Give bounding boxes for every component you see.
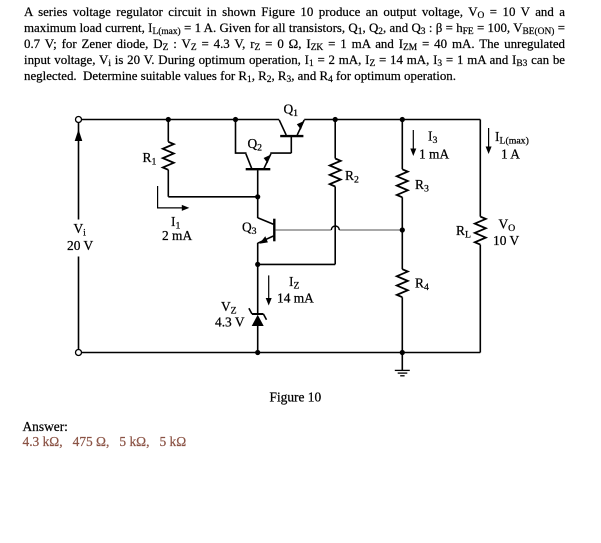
label Vz [221, 299, 237, 317]
input terminal top (open circle) [76, 117, 82, 123]
wire Q3 collector up to node A [257, 197, 259, 218]
junction dot R1 top [166, 117, 171, 122]
wire Q3 base line to node C (with hop over R2 branch) [275, 226, 402, 230]
svg-text:R4: R4 [415, 276, 429, 294]
label I3 [428, 129, 437, 147]
junction dot Q2 collector on rail [233, 117, 238, 122]
wire R2 bottom to node B [258, 263, 336, 265]
arrow I1 (corner, right) [158, 186, 190, 211]
svg-text:IL(max): IL(max) [495, 129, 529, 147]
svg-text:Figure 10: Figure 10 [270, 389, 322, 404]
label IL(max) [495, 129, 529, 147]
input terminal bottom (open circle) [76, 350, 82, 356]
label Q3 [242, 219, 257, 237]
label 1 mA [419, 147, 449, 162]
svg-text:Q2: Q2 [248, 136, 263, 154]
label Q2 [248, 136, 263, 154]
wire Q3 emitter down to node B [257, 243, 259, 265]
wire top rail right section [304, 119, 480, 121]
svg-text:I3: I3 [428, 129, 437, 147]
junction dot ground node on bottom rail [400, 350, 405, 355]
label 10 V [493, 233, 519, 248]
resistor R4 [397, 230, 408, 353]
label R3 [415, 177, 429, 195]
arrow IL(max) (down) [486, 128, 492, 154]
label 1 A [501, 147, 520, 162]
node A (R1/Q2 base/Q3 collector junction dot) [255, 194, 260, 199]
svg-text:Vi: Vi [74, 221, 87, 239]
resistor RL [475, 217, 486, 245]
svg-text:IZ: IZ [289, 274, 299, 292]
label 14 mA [277, 291, 314, 306]
svg-text:14 mA: 14 mA [277, 291, 314, 306]
svg-text:2 mA: 2 mA [162, 228, 192, 243]
transistor Q1 [279, 120, 304, 153]
label Q1 [284, 102, 299, 120]
label Figure 10 [270, 389, 322, 404]
node B junction dot (Q3 emitter/R2/zener) [255, 262, 260, 267]
junction dot R2 top [333, 117, 338, 122]
arrow Iz (down) [266, 275, 272, 305]
svg-text:4.3 V: 4.3 V [215, 315, 245, 330]
arrow Vi polarity (up) [75, 129, 83, 141]
label R1 [143, 150, 157, 168]
wire right vertical (output) [479, 120, 481, 353]
svg-text:R3: R3 [415, 177, 429, 195]
label R2 [345, 168, 359, 186]
zener diode DZ [249, 264, 267, 352]
svg-text:VO: VO [499, 216, 516, 234]
junction dot R3 top [400, 117, 405, 122]
label RL [456, 223, 471, 241]
label Vo [499, 216, 516, 234]
svg-text:Q3: Q3 [242, 219, 257, 237]
wire left vertical (input) [78, 123, 80, 350]
wire Q2 emitter to Q1 base [270, 152, 291, 154]
svg-text:1 mA: 1 mA [419, 147, 449, 162]
label 4.3 V [215, 315, 245, 330]
svg-text:R1: R1 [143, 150, 157, 168]
svg-text:R2: R2 [345, 168, 359, 186]
node C junction dot (R3/R4/base) [400, 227, 405, 232]
label 20 V [67, 238, 93, 253]
label Vi [74, 221, 87, 239]
label Iz [289, 274, 299, 292]
arrow I3 (down) [410, 130, 416, 156]
svg-text:20 V: 20 V [67, 238, 93, 253]
label R4 [415, 276, 429, 294]
transistor Q3 [258, 218, 275, 244]
resistor R1 [163, 120, 174, 197]
wire Q2 collector to top rail [236, 120, 247, 154]
junction dot zener on bottom rail [255, 350, 260, 355]
svg-text:10 V: 10 V [493, 233, 519, 248]
label I1 [171, 214, 180, 232]
wire bottom rail [82, 352, 481, 354]
wire top rail left section [82, 119, 280, 121]
transistor Q2 [246, 154, 271, 195]
wire R1 bottom to node A [168, 196, 257, 198]
ground [395, 353, 410, 376]
svg-text:Q1: Q1 [284, 102, 299, 120]
svg-text:RL: RL [456, 223, 471, 241]
label 2 mA [162, 228, 192, 243]
resistor R2 [330, 120, 341, 265]
resistor R3 [397, 120, 408, 231]
svg-text:1 A: 1 A [501, 147, 520, 162]
